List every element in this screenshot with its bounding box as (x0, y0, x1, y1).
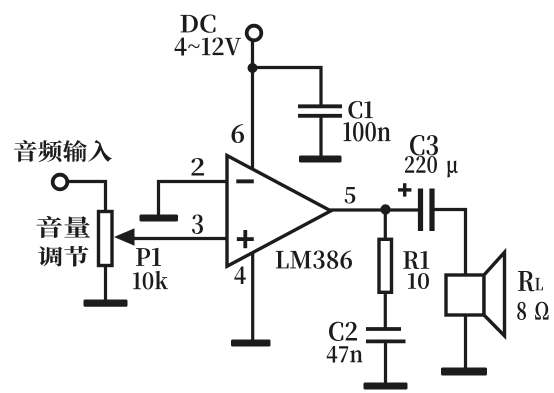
wire node to R1 (384, 210, 387, 242)
wire pin 3 to P1 wiper (130, 237, 226, 240)
speaker RL driver box (446, 275, 484, 315)
value 47n (327, 346, 363, 363)
wire C2 to ground (384, 341, 387, 386)
wire C1 to ground (319, 116, 322, 159)
op-amp non-inverting '+' mark (237, 230, 254, 248)
potentiometer P1 wiper arrow (114, 228, 135, 245)
op-amp inverting input '-' mark (236, 179, 254, 183)
ground (pin 4) (231, 340, 271, 347)
label DC (181, 15, 216, 33)
wire R1 to C2 (384, 291, 387, 330)
label R1 (403, 251, 429, 269)
value 8Ω (517, 302, 549, 320)
label 音量 (volume) (37, 216, 91, 238)
potentiometer P1 body (99, 212, 113, 266)
wire input jack to P1 top (66, 182, 106, 214)
pin label 6 (232, 124, 245, 143)
label 调节 (adjust) (38, 246, 89, 267)
label RL (R) (518, 271, 534, 291)
pin label 3 (192, 215, 203, 235)
capacitor C1 plates (298, 106, 342, 116)
op-amp U1 LM386 triangle (227, 156, 331, 267)
C3 polarity '+' mark (398, 183, 411, 196)
label C2 (329, 322, 357, 341)
ground (C1) (299, 156, 342, 163)
value 220µ (405, 156, 458, 178)
pin label 4 (234, 267, 245, 285)
terminal audio input jack (53, 175, 68, 190)
wire pin 5 output (330, 208, 418, 211)
node output junction (pin 5) (380, 204, 390, 214)
node supply junction (248, 63, 258, 73)
ground (pin 2) (140, 215, 179, 222)
capacitor C3 plates (421, 189, 433, 232)
wire pin 2 to ground (159, 182, 228, 217)
wire supply to C1 (253, 68, 322, 107)
ground (C2) (364, 383, 408, 390)
label P1 (136, 248, 161, 266)
label C3 (410, 135, 438, 156)
pin label 2 (192, 158, 205, 176)
label 音频输入 (audio input) (14, 140, 112, 162)
terminal DC input jack (247, 26, 262, 41)
wire P1 bottom to ground (104, 263, 107, 302)
pin label 5 (345, 187, 356, 204)
label RL (L subscript) (535, 278, 543, 290)
value 10 (408, 273, 429, 289)
ground (P1) (84, 300, 128, 307)
wire C3 to speaker (435, 210, 466, 278)
value 4~12V (175, 38, 242, 56)
ground (speaker) (441, 368, 487, 376)
capacitor C2 plates (366, 329, 406, 341)
value 100n (344, 122, 391, 142)
label LM386 (276, 251, 352, 269)
wire pin 4 to ground (251, 251, 254, 342)
label C1 (348, 101, 373, 119)
wire speaker to ground (464, 313, 467, 370)
resistor R1 body (379, 239, 392, 292)
value 10k (133, 271, 168, 290)
speaker RL cone (484, 252, 505, 335)
wire supply feed (DC jack to pin 6) (251, 41, 254, 171)
